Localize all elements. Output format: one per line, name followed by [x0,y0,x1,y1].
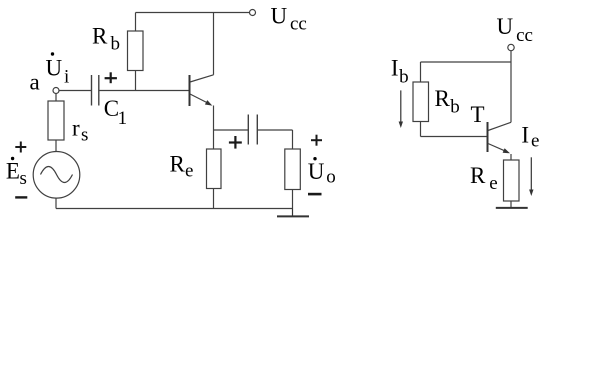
label U_cc left [271,4,307,35]
wire node to Re [213,130,215,149]
wire load top stub [292,130,294,149]
svg-text:R: R [470,163,486,188]
label R_b left [92,24,120,55]
transistor V1 collector [190,75,214,82]
transistor V1 base bar [189,75,191,106]
label minus of Es [15,196,27,198]
svg-text:b: b [399,66,409,87]
wire Re bottom [213,189,215,209]
node a input terminal [53,88,59,94]
wire emitter to Re right [510,154,512,160]
svg-text:i: i [64,67,69,88]
arrow I_b [399,90,403,128]
source Es circle with sine [33,152,80,199]
label minus of Uo [308,193,322,196]
svg-text:cc: cc [290,14,307,35]
resistor Rb left [128,31,144,71]
label U_i with dot [46,52,70,87]
svg-text:s: s [81,125,88,146]
svg-text:U: U [46,56,63,81]
transistor T emitter with arrow [488,144,510,154]
svg-text:I: I [391,56,399,81]
ground right [496,207,528,209]
svg-text:e: e [185,161,193,182]
svg-text:U: U [497,14,514,39]
svg-text:r: r [72,116,80,141]
svg-text:e: e [489,173,497,194]
wire C2 to load [258,129,293,131]
svg-text:o: o [326,167,336,188]
capacitor C1 [92,75,99,106]
resistor rs [48,101,64,140]
wire Rb bottom to base node [135,71,137,91]
wire terminal a to rs [55,94,57,102]
label plus of Uo [311,135,322,146]
arrow I_e [529,157,533,196]
svg-text:T: T [471,102,485,127]
svg-text:s: s [20,168,27,189]
label E_s with dot [6,157,27,189]
resistor Re right [504,160,520,201]
ground left [277,209,309,217]
wire top supply rail [136,12,250,14]
label r_s [72,116,88,146]
label U_o with dot [308,157,336,188]
svg-text:1: 1 [118,108,128,129]
terminal Ucc right [508,44,514,50]
wire Rb to base right [421,122,488,137]
svg-text:U: U [308,159,325,184]
svg-text:R: R [92,24,108,49]
wire rail to Rb right [420,62,422,82]
svg-text:b: b [111,34,121,55]
wire supply down right [510,51,512,123]
svg-text:I: I [521,122,529,147]
wire input terminal to C1 [59,90,91,92]
label C1 [104,96,127,129]
wire collector to rail [213,13,215,75]
svg-text:a: a [30,70,40,95]
label U_cc right [497,14,533,46]
label R_e right [470,163,498,194]
label plus of C1 [105,72,117,83]
wire emitter node to C2 [214,129,249,131]
label R_e left [170,152,194,182]
resistor Rb right [413,82,429,122]
wire source to ground rail [55,198,57,209]
svg-text:R: R [170,152,186,177]
svg-text:E: E [6,159,20,184]
terminal Ucc supply left [250,10,256,16]
resistor load RL [285,149,301,190]
transistor T collector [488,122,511,130]
label I_e [521,122,539,151]
wire C1 to base [99,90,189,92]
transistor T base bar [487,122,489,152]
svg-text:e: e [531,130,539,151]
svg-text:U: U [271,4,288,29]
label I_b [391,56,409,88]
wire load bottom stub [292,190,294,209]
label plus of C2 [229,136,242,149]
resistor Re left [207,149,222,189]
wire rs to source [55,140,57,152]
wire Re to ground right [510,201,512,207]
label R_b right [435,86,460,117]
transistor V1 emitter with arrow [190,94,212,106]
wire bottom ground rail [56,208,293,210]
wire Rb top stub [135,13,137,32]
label plus of Es [15,142,26,153]
svg-text:b: b [450,97,460,118]
wire emitter down [213,106,215,131]
svg-text:R: R [435,86,451,111]
capacitor C2 output [248,115,257,145]
wire top rail right [421,61,512,63]
svg-text:cc: cc [516,25,533,46]
